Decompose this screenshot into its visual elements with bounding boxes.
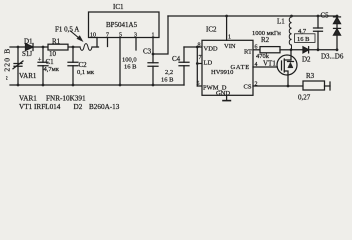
svg-text:FNR-10K391: FNR-10K391 bbox=[46, 95, 86, 103]
capacitor C1 bbox=[42, 47, 44, 85]
resistor R1 bbox=[48, 44, 68, 50]
svg-text:VAR1: VAR1 bbox=[19, 72, 37, 80]
svg-text:7: 7 bbox=[199, 55, 202, 61]
wire pin3 stub bbox=[135, 38, 137, 51]
svg-text:LD: LD bbox=[204, 60, 213, 67]
node mains input labels bbox=[3, 48, 12, 80]
svg-text:D2: D2 bbox=[302, 56, 311, 64]
svg-text:16 В: 16 В bbox=[297, 36, 310, 43]
wire top supply rail bbox=[168, 15, 337, 17]
capacitor C2 bbox=[72, 47, 74, 85]
svg-text:C1: C1 bbox=[46, 58, 55, 66]
wire CS bbox=[253, 85, 303, 87]
svg-text:5: 5 bbox=[197, 81, 200, 87]
svg-text:BP5041A5: BP5041A5 bbox=[106, 21, 138, 29]
op-amp IC1 (driver BP5041A5) bbox=[89, 12, 160, 38]
wire VDD to IC2 pin 8 bbox=[184, 46, 202, 48]
svg-text:C2: C2 bbox=[79, 61, 88, 69]
inductor L1 bbox=[289, 17, 291, 50]
svg-text:R3: R3 bbox=[306, 72, 315, 80]
svg-text:100,0: 100,0 bbox=[122, 57, 137, 64]
LED string D3...D6 bbox=[336, 16, 338, 50]
wire top input bbox=[10, 46, 80, 48]
op-amp IC2 (driver HV9910) bbox=[202, 40, 253, 95]
svg-text:2,2: 2,2 bbox=[165, 69, 173, 76]
svg-text:IC2: IC2 bbox=[206, 26, 217, 34]
svg-text:GATE: GATE bbox=[231, 64, 250, 71]
capacitor C4 bbox=[183, 47, 185, 85]
svg-text:10: 10 bbox=[49, 50, 57, 58]
svg-text:C5: C5 bbox=[321, 12, 330, 20]
svg-text:D2: D2 bbox=[74, 103, 83, 111]
svg-text:1000 мкГн: 1000 мкГн bbox=[252, 30, 281, 37]
svg-text:~ 220 В: ~ 220 В bbox=[3, 48, 12, 80]
svg-text:D3...D6: D3...D6 bbox=[321, 53, 344, 61]
varistor VAR1 bbox=[17, 47, 19, 85]
svg-text:16 В: 16 В bbox=[161, 77, 174, 84]
svg-text:L1: L1 bbox=[277, 18, 285, 26]
wire VDD feed from IC1 pin1 to rail bbox=[153, 16, 168, 54]
svg-text:D1: D1 bbox=[24, 38, 33, 46]
ground bbox=[226, 95, 228, 100]
svg-text:10: 10 bbox=[90, 33, 96, 39]
svg-text:C3: C3 bbox=[143, 48, 152, 56]
svg-text:1: 1 bbox=[228, 35, 231, 41]
wire pin5 to bottom rail bbox=[119, 38, 121, 86]
resistor R3 bbox=[303, 81, 325, 90]
svg-text:0,1 мк: 0,1 мк bbox=[77, 69, 95, 76]
svg-text:VIN: VIN bbox=[224, 43, 236, 50]
svg-text:RT: RT bbox=[244, 49, 252, 56]
svg-text:VAR1: VAR1 bbox=[19, 95, 37, 103]
svg-text:IRFL014: IRFL014 bbox=[34, 103, 61, 111]
svg-text:R2: R2 bbox=[261, 36, 270, 44]
svg-text:4,7мк: 4,7мк bbox=[44, 66, 60, 73]
svg-text:IC1: IC1 bbox=[113, 3, 124, 11]
svg-text:VT1: VT1 bbox=[19, 103, 33, 111]
wire bottom rail bbox=[10, 84, 184, 86]
svg-text:S1J: S1J bbox=[22, 50, 32, 58]
diode D1 bbox=[26, 44, 34, 51]
diode D2 bbox=[291, 49, 337, 51]
wire pin1 VIN bbox=[226, 16, 228, 40]
svg-text:0,27: 0,27 bbox=[298, 94, 311, 102]
capacitor C3 bbox=[152, 54, 154, 85]
svg-text:8: 8 bbox=[198, 43, 201, 49]
svg-text:F1 0,5 A: F1 0,5 A bbox=[55, 26, 79, 34]
wire pin1 bbox=[152, 38, 154, 55]
svg-text:R1: R1 bbox=[52, 38, 61, 46]
fuse F1 bbox=[80, 44, 92, 51]
svg-text:16 В: 16 В bbox=[124, 64, 137, 71]
svg-text:C4: C4 bbox=[172, 55, 181, 63]
svg-text:CS: CS bbox=[244, 84, 252, 91]
capacitor C5 bbox=[317, 16, 319, 50]
resistor R2 bbox=[253, 49, 260, 51]
wire VDD/LD/PWM_D tie bbox=[196, 47, 198, 86]
svg-text:B260A-13: B260A-13 bbox=[89, 103, 120, 111]
svg-text:VDD: VDD bbox=[204, 46, 218, 53]
transistor VT1 bbox=[277, 55, 297, 75]
svg-text:VT1: VT1 bbox=[263, 60, 276, 68]
wire pin10 bbox=[96, 38, 98, 48]
node parts list bbox=[19, 95, 120, 112]
wire pin7 stub bbox=[107, 38, 109, 47]
wire GATE to VT1 bbox=[253, 66, 277, 68]
svg-text:GND: GND bbox=[216, 90, 230, 97]
